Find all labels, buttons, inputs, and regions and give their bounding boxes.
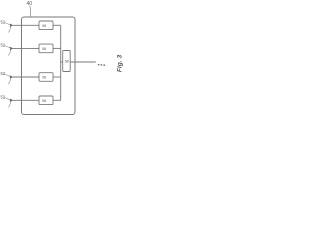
arrowhead input c — [10, 75, 14, 79]
svg-text:52: 52 — [1, 71, 6, 76]
svg-text:40: 40 — [27, 1, 33, 7]
filter box 56d — [39, 96, 53, 105]
wire leader 52b — [5, 46, 11, 49]
bus vertical wire — [60, 25, 62, 100]
ellipsis dots on output — [98, 64, 100, 66]
outer enclosure box 40 — [22, 17, 76, 115]
curved tail a — [8, 26, 10, 32]
svg-text:56: 56 — [42, 24, 46, 28]
svg-text:52: 52 — [1, 95, 6, 100]
svg-text:52: 52 — [1, 43, 6, 48]
wire leader 52c — [5, 74, 11, 77]
arrowhead input d — [10, 99, 14, 103]
svg-text:Fig. 3: Fig. 3 — [116, 55, 123, 73]
svg-text:56: 56 — [42, 99, 46, 103]
curved tail b — [8, 50, 10, 56]
svg-text:58: 58 — [65, 60, 69, 64]
svg-text:56: 56 — [42, 76, 46, 80]
wire row4 — [13, 99, 39, 101]
leader wire for label 40 — [29, 6, 32, 17]
wire box3 to bus — [53, 76, 61, 78]
svg-text:56: 56 — [42, 47, 46, 51]
combiner box 58 — [63, 51, 70, 72]
wire row1 — [13, 24, 39, 26]
filter box 56b — [39, 44, 53, 53]
wire leader 52d — [5, 98, 11, 101]
arrowhead input b — [10, 47, 14, 51]
filter box 56a — [39, 21, 53, 30]
wire box4 to bus — [53, 99, 61, 101]
wire row2 — [13, 47, 39, 49]
curved tail d — [8, 101, 10, 107]
svg-text:52: 52 — [1, 20, 6, 25]
filter box 56c — [39, 73, 53, 82]
curved tail c — [8, 78, 10, 84]
wire row3 — [13, 76, 39, 78]
wire leader 52a — [5, 23, 11, 26]
wire box1 to bus — [53, 24, 61, 26]
wire box2 to bus — [53, 47, 61, 49]
wire bus to combiner — [61, 61, 63, 63]
output wire — [70, 61, 96, 63]
arrowhead input a — [10, 24, 14, 28]
